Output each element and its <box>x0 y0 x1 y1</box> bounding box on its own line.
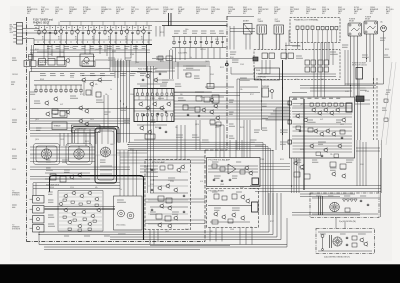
wire <box>52 153 74 155</box>
voltage selector S902 <box>356 68 363 80</box>
wire <box>30 169 130 171</box>
capacitor C18 <box>165 131 167 134</box>
rotary switch S303 (volume) <box>101 147 111 157</box>
wire mesh v51 <box>239 228 241 245</box>
wire <box>145 96 147 100</box>
wire <box>207 48 209 59</box>
wire <box>140 171 158 173</box>
transistor Q61 <box>331 171 336 177</box>
tuner stub 1 <box>47 22 49 26</box>
speaker terminal TB903 <box>30 216 45 224</box>
wire <box>93 26 95 30</box>
caption S901 <box>338 7 346 15</box>
transistor Q37 <box>159 203 164 209</box>
wire <box>179 48 181 60</box>
output transformer T502 <box>274 25 284 34</box>
wire mesh h16 <box>120 162 205 164</box>
AM ANT label <box>243 20 249 23</box>
wire <box>270 149 272 216</box>
box eu5 <box>330 162 336 167</box>
tuner part label <box>124 47 129 49</box>
wire <box>57 191 59 232</box>
transistor Q33 <box>180 164 185 170</box>
wire mesh h27 <box>150 245 230 247</box>
wire <box>258 34 260 50</box>
power amp dark bus <box>45 208 116 210</box>
transistor Q47 <box>221 214 226 220</box>
wire mesh v4 <box>51 45 53 56</box>
transistor Q3 <box>75 29 80 35</box>
wire dark join <box>146 45 148 72</box>
wire IF feed b <box>170 13 172 26</box>
part label row 53 <box>214 208 221 210</box>
caption RY901 <box>354 7 363 15</box>
resistor R16 <box>50 88 52 93</box>
box R-net2 <box>96 92 101 97</box>
capacitor C22 <box>360 200 362 203</box>
wire <box>373 34 375 84</box>
transistor Q50 <box>311 107 316 113</box>
part label row 75 <box>12 58 17 60</box>
wire <box>148 26 150 30</box>
phono IC Q201 <box>80 54 94 66</box>
wire <box>110 63 210 65</box>
part label row 56 <box>62 160 68 162</box>
IC201 tone control IC box <box>134 89 174 122</box>
transistor Q9 <box>44 100 49 106</box>
wire mesh h29 <box>230 31 255 33</box>
wire mesh v63 <box>89 133 91 146</box>
part label row 37 <box>318 142 326 144</box>
UK mains input P902 <box>321 235 324 251</box>
wire <box>99 34 101 44</box>
capacitor C2 <box>65 32 67 35</box>
wire <box>292 212 360 214</box>
box f70e <box>228 219 233 223</box>
wire <box>45 178 90 180</box>
box EQ1 <box>183 105 188 110</box>
wire dark rail europe <box>303 99 305 190</box>
capacitor C14 <box>142 79 144 82</box>
wire <box>272 151 274 216</box>
wire mesh v39 <box>229 140 231 158</box>
wire <box>208 168 258 170</box>
wire mesh v49 <box>215 228 217 242</box>
transistor Q60 <box>299 164 304 170</box>
wire <box>291 158 293 193</box>
part label row 43 <box>150 170 157 172</box>
tuner stub 5 <box>91 22 93 26</box>
part label row 42 <box>346 160 354 162</box>
resistor R10 <box>195 40 197 45</box>
part label row 20 <box>120 108 126 110</box>
transistor Q53 <box>329 110 334 116</box>
capacitor C5 <box>115 32 117 35</box>
part label row 36 <box>308 120 316 122</box>
europe IC row <box>310 103 343 106</box>
wire mesh v18 <box>245 34 247 50</box>
wire mesh h40 <box>356 150 380 152</box>
capacitor C33 <box>151 189 153 192</box>
part label row 24 <box>140 85 147 87</box>
part label row 67 <box>118 233 126 235</box>
part label row 50 <box>236 191 242 193</box>
switch S502 <box>281 53 294 59</box>
wire <box>37 51 64 53</box>
box ph1 <box>196 96 202 101</box>
wire mesh v50 <box>221 228 223 242</box>
caption P901 <box>386 7 394 15</box>
wire <box>75 85 77 88</box>
europe hatch 10 <box>293 151 353 153</box>
transistor Q66 <box>213 103 218 109</box>
wire mesh h0 <box>30 49 150 51</box>
capacitor C19 <box>213 179 215 182</box>
part label row 12 <box>384 55 390 57</box>
resistor R7 <box>137 30 139 36</box>
capacitor C29 <box>143 114 145 117</box>
wire mesh v41 <box>241 140 243 158</box>
power amp resistor bank <box>63 199 98 231</box>
muting assy box <box>38 61 66 67</box>
resistor R12 <box>216 40 218 45</box>
capacitor C16 <box>198 115 200 118</box>
box tone <box>145 134 155 139</box>
switch S503 <box>305 60 316 72</box>
wire <box>150 66 152 193</box>
box left tiny <box>29 55 33 60</box>
wire mesh v58 <box>127 150 129 196</box>
cap area label <box>117 200 126 202</box>
capacitor C30 <box>157 113 159 116</box>
wire mesh h26 <box>44 249 200 251</box>
output transformer T501 <box>257 25 267 34</box>
wire <box>146 166 148 177</box>
europe header labels <box>293 97 340 99</box>
transistor Q16 <box>78 105 83 111</box>
capacitor C4 <box>98 32 100 35</box>
wire <box>91 86 93 96</box>
wire <box>357 36 359 97</box>
page edge artifact2 <box>386 62 396 145</box>
part label row 32 <box>250 140 256 142</box>
wire f751 to europe a <box>260 163 290 165</box>
wire pv5 <box>135 45 137 62</box>
wire <box>271 113 292 115</box>
label rm <box>382 108 387 110</box>
part label row 16 <box>36 128 41 130</box>
part label row 59 <box>100 160 106 162</box>
transistor Q28 <box>139 125 144 131</box>
part label row 34 <box>280 130 288 132</box>
part label row 35 <box>280 142 287 144</box>
wire <box>286 218 288 247</box>
wire <box>45 206 116 208</box>
wire mesh h41 <box>300 193 355 195</box>
MPX pin label 4 <box>210 31 216 33</box>
capacitor C6 <box>131 32 133 35</box>
wire tb2 <box>317 43 319 98</box>
transistor Q25 <box>159 105 164 111</box>
wire lb3 <box>183 69 200 71</box>
connector CN302 (dark) <box>252 202 259 212</box>
wire <box>211 43 213 47</box>
wire mesh h39 <box>356 147 380 149</box>
AM bar antenna T101 <box>244 24 253 35</box>
wire <box>360 102 362 141</box>
wire mesh v9 <box>99 45 101 54</box>
wire <box>318 250 372 252</box>
wire mesh h6 <box>30 118 130 120</box>
volume unit box (dark) <box>95 128 117 183</box>
part label row 40 <box>312 160 318 162</box>
wire <box>255 145 263 147</box>
part label row 41 <box>330 168 337 170</box>
wire <box>128 142 263 144</box>
wire pv2 <box>120 59 122 72</box>
wire <box>213 48 215 59</box>
wire mesh v59 <box>59 133 61 146</box>
wire <box>110 61 210 63</box>
wire <box>58 230 103 232</box>
wire <box>28 55 95 57</box>
wire <box>114 59 116 79</box>
wire mesh v24 <box>269 60 271 74</box>
value label <box>75 37 77 41</box>
tone switch S203 <box>52 111 67 118</box>
wire mesh h13 <box>116 133 147 135</box>
box eu4 <box>304 174 310 179</box>
capacitor C35 <box>183 195 185 198</box>
wire mesh h32 <box>155 70 175 72</box>
capacitor C28 <box>321 155 323 158</box>
transistor Q56 <box>319 131 324 137</box>
wire mesh v56 <box>119 150 121 196</box>
wire mesh v32 <box>180 125 182 160</box>
wire mesh h14 <box>120 156 205 158</box>
wire <box>110 239 281 241</box>
wire <box>174 106 290 108</box>
amp hatch 5 <box>59 212 102 214</box>
control section bottom edge <box>30 108 165 110</box>
wire pv4 <box>130 45 132 58</box>
transistor Q17 <box>84 108 89 114</box>
connector CN401 (dark) <box>253 57 258 61</box>
wire <box>279 34 281 50</box>
amp hatch 3 <box>59 204 102 206</box>
transistor Q62 <box>341 173 346 179</box>
wire <box>258 76 336 78</box>
box f750a <box>160 166 165 170</box>
wire <box>275 34 277 50</box>
wire mesh h2 <box>30 68 110 70</box>
amp hatch 1 <box>59 196 102 198</box>
section boundary bottom horizontal <box>27 241 206 243</box>
transistor Q26 <box>166 101 171 107</box>
wire <box>110 65 210 67</box>
wire <box>129 60 131 143</box>
box f751a <box>212 164 217 168</box>
antenna terminal block J101 <box>13 23 22 45</box>
caption CF101 <box>101 7 112 15</box>
control part label <box>100 74 105 76</box>
wire <box>77 26 79 30</box>
wire mesh v48 <box>209 228 211 242</box>
power amp transistor bank Q701-Q714 <box>58 191 101 229</box>
part label row 68 <box>316 195 322 197</box>
label lb <box>194 76 200 78</box>
wire mesh h38 <box>355 103 370 105</box>
wire bus v6 <box>275 108 277 150</box>
capacitor C15 <box>187 114 189 117</box>
wire <box>362 142 364 186</box>
wire <box>148 199 188 201</box>
wire mesh v42 <box>243 120 245 158</box>
transistor Q12 <box>45 111 50 117</box>
wire <box>137 26 139 30</box>
transistor Q49 <box>240 215 245 221</box>
wire <box>30 157 95 159</box>
wire <box>132 26 134 30</box>
wire <box>45 172 90 174</box>
wire mesh v0 <box>31 45 33 72</box>
caption T101 <box>41 7 49 15</box>
wire IF bus dark <box>162 25 227 27</box>
S302 outer outline <box>66 144 92 165</box>
control part label <box>140 74 146 76</box>
wire <box>60 33 62 44</box>
wire <box>292 111 352 113</box>
wire <box>298 158 300 193</box>
caption B101 <box>27 7 38 15</box>
part label row 25 <box>160 85 167 87</box>
wire <box>126 26 128 30</box>
tuner part label <box>99 47 103 49</box>
section boundary left vertical <box>26 17 28 242</box>
wire mesh v14 <box>159 26 161 37</box>
wire <box>292 107 352 109</box>
wire mesh h5 <box>174 95 240 97</box>
part label row 77 <box>12 120 17 122</box>
control section left edge <box>29 72 31 131</box>
wire <box>155 79 174 81</box>
europe hatch 5 <box>293 126 353 128</box>
resistor R1 <box>38 30 40 36</box>
UK PSU dashed box <box>316 229 375 254</box>
wire <box>82 34 84 44</box>
wire mesh v1 <box>33 45 35 60</box>
caption VR301 <box>228 7 236 15</box>
resistor R15 <box>45 88 47 93</box>
amp feed dark bus <box>50 176 144 193</box>
box eq amp a <box>210 120 215 124</box>
wire mesh v33 <box>184 125 186 160</box>
wire mesh v52 <box>245 228 247 245</box>
wire mesh h4 <box>174 92 260 94</box>
wire mid horizontal <box>152 58 254 60</box>
wire pv3 <box>124 45 126 60</box>
wire <box>128 144 266 146</box>
wire mesh h37 <box>355 99 370 101</box>
wire <box>208 171 258 173</box>
wire <box>344 222 346 229</box>
part label row 76 <box>11 82 15 84</box>
transistor Q43 <box>248 170 253 176</box>
transistor Q32 <box>176 167 181 173</box>
resistor R8 <box>173 40 175 45</box>
wire <box>128 150 273 152</box>
capacitor C8 <box>178 41 180 44</box>
tuner stub 4 <box>80 22 82 26</box>
wire <box>35 85 37 88</box>
wire <box>55 85 57 88</box>
transistor Q54 <box>335 107 340 113</box>
wire meter feed <box>205 86 234 88</box>
wire mesh v38 <box>223 125 225 158</box>
transistor Q4 <box>91 29 96 35</box>
transistor Q48 <box>231 212 236 218</box>
wire mesh h34 <box>292 92 307 94</box>
wire tb5 <box>328 43 330 66</box>
wire mesh h9 <box>174 115 290 117</box>
wire <box>140 176 158 178</box>
amp hatch 7 <box>59 220 102 222</box>
wire <box>45 85 47 88</box>
amp hatch 8 <box>59 224 102 226</box>
wire <box>222 37 224 41</box>
part label row 86 <box>262 128 267 130</box>
part label row 23 <box>125 58 131 60</box>
tuner part label <box>107 47 112 49</box>
wire mesh v2 <box>43 45 45 59</box>
value label <box>108 37 110 41</box>
wire <box>117 59 119 79</box>
wire mesh v43 <box>246 120 248 158</box>
capacitor C10 <box>200 41 202 44</box>
UK transformer T902 windings <box>330 235 332 248</box>
wire <box>195 37 197 41</box>
section boundary right lower vertical <box>204 150 206 242</box>
wire mesh v54 <box>32 183 34 196</box>
part label row 61 <box>48 200 53 202</box>
wire <box>383 34 385 84</box>
transistor Q46 <box>213 211 218 217</box>
wire mesh v55 <box>35 183 37 196</box>
wire <box>205 37 207 41</box>
part label row 9 <box>360 88 367 90</box>
wire <box>350 36 352 97</box>
transistor Q24 <box>152 101 157 107</box>
wire lb1 <box>177 62 179 79</box>
box rm1 <box>384 99 388 102</box>
wire lb2 <box>183 65 206 67</box>
part label row 3 <box>232 60 239 62</box>
wire mesh v5 <box>59 45 61 57</box>
capacitor C31 <box>165 111 167 114</box>
MPX pin label 0 <box>174 31 180 33</box>
part label row 66 <box>104 235 110 237</box>
filter cap C902 <box>127 212 134 219</box>
wire <box>148 171 188 173</box>
tuner part label <box>64 47 69 49</box>
part label row 17 <box>70 96 78 98</box>
wire <box>58 190 103 192</box>
MPX pin label 3 <box>201 31 207 33</box>
RY901 label <box>349 18 356 22</box>
wire <box>184 37 186 41</box>
tuner part label <box>73 47 78 49</box>
wire <box>126 60 128 143</box>
